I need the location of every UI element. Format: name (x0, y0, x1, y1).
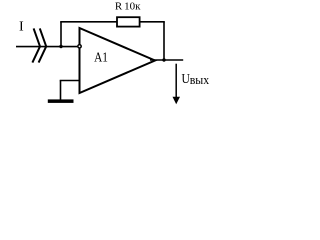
node junction B output (162, 58, 165, 61)
svg-text:вых: вых (190, 73, 210, 87)
svg-text:A1: A1 (94, 50, 108, 65)
node junction A (59, 45, 62, 48)
svg-text:I: I (19, 20, 24, 35)
output wire (150, 59, 183, 61)
ground vertical wire (60, 81, 62, 100)
wire feedback top left horizontal (60, 21, 117, 23)
output arrowhead (173, 97, 181, 105)
wire feedback top right horizontal (140, 21, 165, 23)
current-source chevron 2 (39, 28, 47, 62)
wire feedback left vertical (60, 22, 62, 47)
svg-text:R: R (115, 1, 123, 13)
ground bar (48, 99, 74, 103)
op-amp A1 triangle (80, 28, 156, 93)
svg-text:10к: 10к (124, 1, 141, 13)
output arrow line (175, 64, 177, 99)
svg-text:U: U (182, 72, 190, 87)
resistor R 10k box (117, 17, 140, 26)
inverting input bubble (78, 45, 81, 48)
current-source chevron 1 (32, 28, 40, 62)
input wire (16, 46, 77, 48)
wire feedback right vertical (163, 22, 165, 60)
non-inverting input wire (60, 80, 79, 82)
